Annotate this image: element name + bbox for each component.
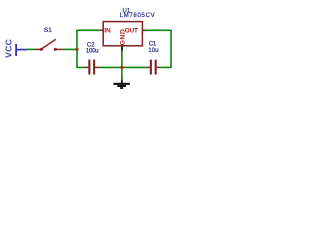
capacitor C1	[146, 41, 160, 74]
svg-text:GND: GND	[120, 29, 127, 46]
svg-text:C2: C2	[87, 43, 95, 49]
wire VCC to S1	[27, 48, 35, 50]
svg-text:S1: S1	[44, 27, 52, 34]
ground	[113, 79, 129, 89]
right pin stub	[57, 48, 63, 50]
node junction IN rail	[75, 48, 78, 51]
pin stub OUT	[143, 29, 146, 31]
power symbol VCC	[4, 39, 28, 58]
left terminal	[40, 48, 43, 51]
wire GND pin down	[121, 51, 123, 67]
svg-text:LM7805CV: LM7805CV	[120, 13, 156, 19]
wire vertical OUT net	[170, 30, 172, 68]
svg-text:100u: 100u	[86, 49, 98, 55]
switch left pin stub	[34, 48, 40, 50]
background	[0, 0, 180, 98]
wire vertical IN net	[76, 30, 78, 67]
capacitor C2	[85, 43, 99, 75]
node junction GND rail	[120, 66, 123, 69]
svg-text:OUT: OUT	[125, 28, 138, 35]
pin stub GND (black)	[121, 46, 123, 52]
lever	[42, 39, 56, 49]
voltage regulator U1 LM7805CV body	[103, 22, 142, 46]
switch S1	[40, 27, 63, 51]
wire GND junction to C1	[122, 66, 146, 68]
svg-text:VCC: VCC	[4, 39, 14, 58]
wire C1 to OUT vertical	[160, 66, 172, 68]
svg-text:C1: C1	[149, 41, 157, 47]
wire S1 to junction	[63, 48, 78, 50]
wire to IN pin	[76, 29, 99, 31]
svg-text:10u: 10u	[148, 48, 158, 54]
wire junction to C2	[76, 66, 84, 68]
wire C2 to GND junction	[99, 66, 122, 68]
pin stub IN	[100, 29, 104, 31]
wire GND junction down to ground	[121, 67, 123, 79]
right terminal	[54, 48, 57, 51]
wire OUT to right	[146, 29, 172, 31]
svg-text:IN: IN	[104, 28, 111, 35]
